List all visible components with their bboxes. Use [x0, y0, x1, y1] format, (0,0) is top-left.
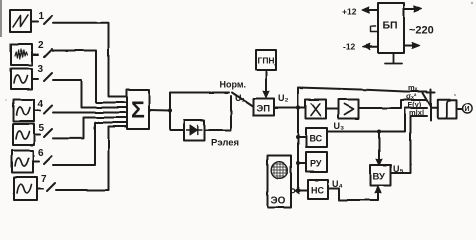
noise waveform G2 — [15, 49, 27, 59]
scan speck — [5, 99, 7, 101]
sine waveform G7 — [17, 184, 32, 193]
svg-text:И: И — [465, 106, 470, 113]
svg-text:m|x|: m|x| — [409, 108, 424, 117]
scan speck — [454, 94, 456, 96]
svg-text:ВС: ВС — [310, 134, 323, 144]
svg-text:3: 3 — [38, 64, 44, 75]
svg-text:~220: ~220 — [409, 25, 434, 37]
switch S6 — [33, 156, 52, 164]
oscilloscope screen — [271, 162, 288, 179]
svg-text:ЭО: ЭО — [271, 196, 286, 207]
GPN box (ramp generator) — [256, 50, 276, 70]
BP ground — [385, 53, 402, 64]
svg-text:ВУ: ВУ — [373, 172, 385, 183]
svg-text:РУ: РУ — [310, 159, 322, 169]
svg-text:БП: БП — [383, 20, 398, 32]
wire W3 — [53, 80, 127, 108]
integrator box — [438, 100, 457, 119]
BP right output arrow bottom — [404, 45, 417, 47]
switch S7 — [37, 183, 55, 191]
summator box — [127, 90, 149, 129]
sawtooth waveform G1 — [13, 15, 28, 27]
generator G3 box — [11, 69, 32, 90]
switch S2 — [32, 49, 52, 57]
wire GPN to EP arrow — [265, 70, 267, 96]
svg-text:U₃: U₃ — [334, 121, 345, 131]
wire W1 — [53, 23, 127, 97]
wire W6 — [53, 123, 127, 166]
diode box VD1 — [184, 120, 205, 141]
BP right output arrow top — [404, 8, 419, 10]
wire X to amplifier — [326, 108, 339, 110]
EO input terminal circle — [291, 189, 295, 193]
node U3 branch — [377, 130, 381, 134]
EP box (follower) — [254, 99, 275, 116]
wire integrator to meter — [457, 108, 463, 110]
wire node U2 down distribution bus — [297, 108, 299, 191]
svg-text:-12: -12 — [343, 42, 356, 52]
svg-text:+12: +12 — [342, 7, 357, 17]
BP left arrow -12 — [365, 46, 378, 48]
wire EP output to node U2 — [274, 107, 306, 109]
svg-text:Рэлея: Рэлея — [211, 138, 239, 149]
amplifier box — [339, 100, 359, 119]
selector cross tick — [427, 92, 435, 94]
meter circle — [463, 103, 473, 113]
sine waveform G6 — [15, 158, 29, 166]
svg-text:ГПН: ГПН — [258, 56, 275, 66]
svg-text:Норм.: Норм. — [220, 80, 247, 90]
sine waveform G5 — [16, 131, 30, 139]
wire bus to NS — [298, 190, 308, 192]
VU box — [370, 165, 391, 186]
oscilloscope screen crosshatch — [271, 161, 288, 179]
BP left arrow +12 — [365, 9, 378, 11]
switch S3 — [32, 73, 52, 81]
generator G6 box — [12, 151, 33, 173]
wire U5 VU to selector m|x| input — [391, 116, 427, 173]
svg-text:U₁: U₁ — [235, 93, 245, 103]
wire U3 drop to VU arrow — [378, 132, 380, 164]
wire amplifier to selector (sigma input) — [359, 100, 427, 108]
svg-text:5: 5 — [39, 123, 45, 134]
svg-text:4: 4 — [38, 99, 44, 110]
wire summator output — [149, 109, 170, 112]
amplifier glyph > — [345, 104, 354, 115]
switch S4 — [34, 106, 52, 114]
svg-text:НС: НС — [311, 186, 324, 196]
svg-text:7: 7 — [41, 174, 47, 185]
scan speck — [471, 2, 473, 4]
selector arm — [423, 93, 431, 107]
wire selector to integrator — [431, 107, 438, 109]
switch S5 — [34, 129, 52, 137]
wire W5 — [53, 118, 127, 139]
multiplier X box — [306, 100, 327, 119]
wire bus to VS — [298, 136, 306, 138]
wire W2 — [53, 51, 127, 103]
wire W7 — [56, 127, 127, 191]
switch Norm/Rayleigh arm — [232, 93, 253, 107]
node RU tap — [296, 161, 300, 165]
wire W4 — [53, 112, 127, 114]
svg-text:U₄: U₄ — [332, 179, 343, 189]
generator G4 box — [14, 100, 35, 122]
wire bus arrow into EO — [297, 190, 300, 192]
power supply BP box — [378, 3, 404, 53]
svg-text:6: 6 — [38, 148, 44, 159]
node U2 — [296, 105, 300, 109]
wire bus to RU — [298, 162, 306, 164]
generator G7 box — [14, 177, 37, 200]
svg-text:2: 2 — [38, 40, 44, 51]
generator G2 box — [11, 44, 32, 65]
VS box — [306, 128, 327, 147]
junction node after summator — [168, 108, 172, 112]
BP left step symbol — [371, 27, 379, 33]
generator G5 box — [13, 124, 34, 145]
wire diode to switch — [205, 96, 232, 130]
svg-text:Σ: Σ — [131, 97, 145, 123]
oscilloscope EO box — [268, 156, 292, 208]
wire to switch top (norm path) — [170, 93, 229, 111]
sine waveform G3 — [14, 75, 28, 83]
RU box — [306, 152, 327, 172]
generator G1 box — [10, 10, 31, 32]
X glyph — [311, 104, 321, 116]
scan edge artifact left — [0, 0, 2, 37]
wire node U2 up and top rail to selector — [298, 88, 427, 108]
svg-text:1: 1 — [39, 11, 45, 22]
wire to diode — [170, 111, 184, 131]
node VS tap — [296, 135, 300, 139]
svg-text:ЭП: ЭП — [257, 104, 271, 115]
wire U4 NS to VU bottom arrow — [328, 188, 378, 200]
switch S1 — [31, 16, 52, 24]
svg-text:U₂: U₂ — [278, 93, 289, 103]
diode symbol — [187, 126, 203, 135]
node EO tap — [296, 188, 300, 192]
sine waveform G4 — [17, 107, 31, 115]
wire U3 to selector F(y) input — [327, 108, 427, 132]
selector switch bar — [430, 90, 432, 121]
svg-text:U₅: U₅ — [393, 164, 404, 174]
NS box — [308, 180, 328, 199]
